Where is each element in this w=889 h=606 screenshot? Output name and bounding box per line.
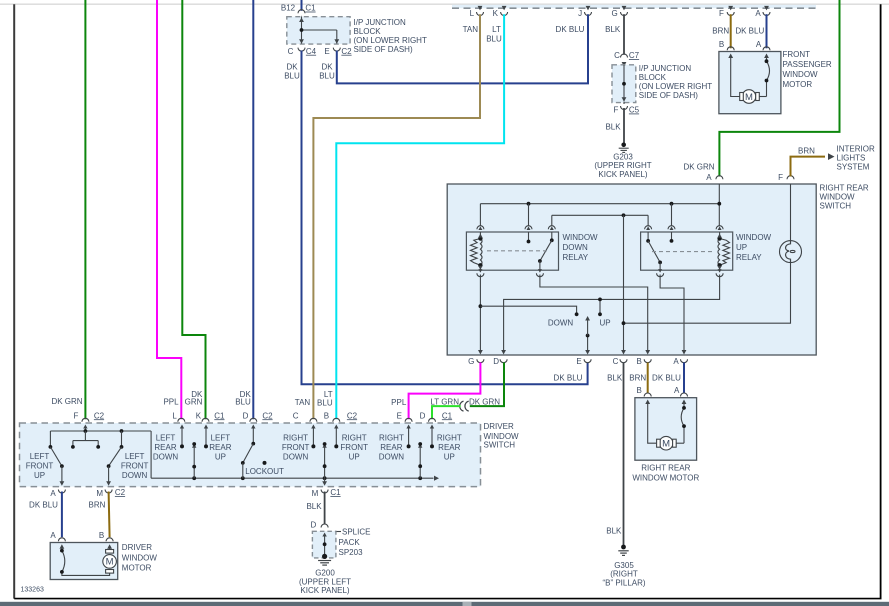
- svg-text:TAN: TAN: [463, 25, 479, 34]
- svg-text:K: K: [196, 411, 202, 420]
- svg-text:BLU: BLU: [486, 35, 502, 44]
- label G305: [614, 561, 634, 570]
- svg-text:D: D: [311, 521, 317, 530]
- wire DK BLU from B12: [301, 0, 303, 11]
- wire PPL G to E driver switch: [409, 363, 481, 420]
- svg-text:WINDOW: WINDOW: [122, 553, 158, 562]
- wire to UP contact: [598, 298, 602, 317]
- label BLK (G wire): [605, 25, 621, 34]
- label TAN (C wire): [295, 398, 311, 407]
- label right front down: [282, 434, 310, 462]
- wire DK BLU C2 to J pin: [337, 14, 588, 83]
- pin B FP motor connector: [727, 47, 734, 58]
- svg-text:A: A: [706, 173, 712, 182]
- svg-text:M: M: [745, 92, 753, 103]
- up relay mid stub: [670, 232, 674, 243]
- left frame border: [13, 4, 15, 598]
- pin D rear switch bottom: [493, 350, 507, 366]
- svg-text:B: B: [324, 411, 329, 420]
- wire BRN to FP motor: [730, 14, 732, 48]
- pin M C2 driver switch: [96, 488, 125, 498]
- right rear window motor label: [632, 463, 699, 482]
- svg-text:RIGHT: RIGHT: [342, 434, 367, 443]
- pin G of top connector: [611, 6, 627, 18]
- pin D splice connector: [321, 524, 328, 528]
- svg-text:M: M: [662, 439, 670, 450]
- wire G riser: [479, 275, 483, 354]
- svg-text:B: B: [99, 531, 104, 540]
- svg-text:BLU: BLU: [235, 397, 251, 406]
- svg-text:BLU: BLU: [317, 399, 333, 408]
- svg-text:UP: UP: [444, 453, 455, 462]
- I/P junction block right text: [639, 64, 712, 100]
- svg-text:C2: C2: [115, 488, 126, 497]
- driver window switch box: [20, 423, 481, 487]
- svg-text:M: M: [106, 557, 114, 568]
- svg-text:MOTOR: MOTOR: [783, 80, 813, 89]
- svg-text:FRONT: FRONT: [783, 50, 811, 59]
- pin J of top connector: [578, 6, 591, 18]
- pin F C5 labels: [614, 106, 640, 115]
- label left rear up: [209, 434, 231, 462]
- svg-text:FRONT: FRONT: [340, 443, 368, 452]
- front passenger window motor label: [783, 50, 832, 89]
- wire DK GRN right feed: [719, 0, 839, 177]
- svg-text:A: A: [756, 40, 762, 49]
- driver switch top pin labels: [74, 411, 453, 420]
- svg-text:FRONT: FRONT: [282, 443, 310, 452]
- svg-text:TAN: TAN: [295, 398, 311, 407]
- svg-text:BLU: BLU: [284, 72, 300, 81]
- svg-text:F: F: [719, 9, 724, 18]
- pin E rear switch bottom: [576, 350, 591, 366]
- svg-text:PPL: PPL: [391, 398, 407, 407]
- svg-text:D: D: [420, 411, 426, 420]
- pin A rear switch connector: [716, 176, 723, 189]
- svg-text:G203: G203: [613, 152, 633, 161]
- svg-text:C: C: [613, 357, 619, 366]
- svg-text:B: B: [637, 386, 642, 395]
- svg-text:LT GRN: LT GRN: [430, 397, 459, 406]
- svg-text:J: J: [578, 9, 582, 18]
- wire BRN B to motor: [647, 363, 649, 394]
- label BRN (M motor wire): [89, 500, 106, 509]
- pin B rear switch bottom: [637, 350, 652, 366]
- label A driver motor: [50, 531, 56, 540]
- svg-text:A: A: [50, 531, 56, 540]
- svg-text:WINDOW: WINDOW: [563, 233, 599, 242]
- up relay coil: [717, 232, 729, 270]
- pin C rear switch bottom: [613, 350, 627, 366]
- svg-text:(ON LOWER RIGHT: (ON LOWER RIGHT: [354, 36, 427, 45]
- switch-top bus dot: [622, 213, 626, 217]
- right frame border: [880, 4, 882, 598]
- svg-text:PACK: PACK: [339, 538, 361, 547]
- pin B RR motor connector: [644, 393, 651, 404]
- svg-text:MOTOR: MOTOR: [122, 564, 152, 573]
- splice internal wire: [322, 533, 326, 557]
- svg-text:BRN: BRN: [712, 27, 729, 36]
- svg-text:KICK PANEL): KICK PANEL): [300, 586, 350, 595]
- label DK GRN (A feed): [683, 163, 714, 172]
- label BLK (M C1 wire): [306, 502, 322, 511]
- right rear window switch box: [447, 184, 816, 355]
- svg-text:DK GRN: DK GRN: [683, 163, 714, 172]
- pin K of top connector: [493, 6, 508, 18]
- svg-text:E: E: [576, 357, 581, 366]
- down relay switch: [538, 232, 554, 270]
- diagram number 133263: [21, 587, 44, 594]
- right rear contacts: [406, 425, 434, 449]
- pin L of top connector: [470, 6, 484, 18]
- svg-text:SIDE OF DASH): SIDE OF DASH): [354, 45, 413, 54]
- svg-text:SYSTEM: SYSTEM: [837, 163, 870, 172]
- svg-text:INTERIOR: INTERIOR: [837, 145, 875, 154]
- left rear contacts: [180, 425, 208, 449]
- label right front up: [340, 434, 368, 462]
- ground G305: [618, 545, 628, 556]
- feed bus dots: [527, 202, 722, 206]
- label BLK above G305: [606, 526, 622, 535]
- svg-text:SIDE OF DASH): SIDE OF DASH): [639, 91, 698, 100]
- wire up relay to A pin: [660, 275, 684, 354]
- svg-text:DOWN: DOWN: [563, 243, 589, 252]
- svg-text:DOWN: DOWN: [122, 471, 148, 480]
- wire C riser: [623, 215, 625, 353]
- label window down relay: [563, 233, 599, 262]
- connector C2/C1 dashed line: [452, 7, 816, 9]
- svg-text:SP203: SP203: [339, 548, 364, 557]
- label right rear down: [379, 434, 405, 462]
- svg-text:RIGHT: RIGHT: [379, 434, 404, 443]
- wire down relay to B pin: [540, 275, 648, 354]
- top toolbar divider line: [0, 3, 889, 5]
- junction dot right block: [622, 82, 626, 86]
- label B pin FP motor: [719, 40, 724, 49]
- pin F C5 connector: [621, 102, 628, 110]
- wire BLK to G203: [623, 108, 625, 145]
- label DK BLU (E wire): [554, 373, 583, 382]
- svg-text:C2: C2: [262, 411, 273, 420]
- inline connector: [460, 401, 469, 411]
- label G203: [613, 152, 633, 161]
- svg-text:BRN: BRN: [89, 500, 106, 509]
- arrow to interior lights system: [828, 153, 835, 160]
- svg-text:C4: C4: [306, 47, 317, 56]
- svg-text:SWITCH: SWITCH: [484, 441, 516, 450]
- svg-text:WINDOW: WINDOW: [783, 70, 819, 79]
- left front up switch: [50, 447, 64, 486]
- pin C C7 labels: [614, 51, 640, 60]
- svg-text:G: G: [611, 9, 617, 18]
- label LT BLU (top): [486, 25, 502, 43]
- label LT BLU (B wire): [317, 390, 333, 408]
- svg-text:B: B: [719, 40, 724, 49]
- lockout bus: [151, 476, 439, 481]
- svg-text:C: C: [293, 411, 299, 420]
- right rear window motor box: [635, 398, 697, 461]
- svg-text:DK BLU: DK BLU: [556, 25, 585, 34]
- svg-text:KICK PANEL): KICK PANEL): [598, 170, 648, 179]
- svg-text:I/P JUNCTION: I/P JUNCTION: [639, 64, 692, 73]
- lamp feed wire: [790, 184, 792, 241]
- wire A feed into switch: [718, 184, 720, 204]
- svg-text:LT: LT: [492, 25, 501, 34]
- RR motor internal A wire: [676, 402, 684, 443]
- svg-text:A: A: [755, 9, 761, 18]
- right rear pole: [418, 442, 422, 478]
- label G305 location: [602, 570, 645, 588]
- svg-text:K: K: [493, 9, 499, 18]
- svg-text:PPL: PPL: [163, 397, 179, 406]
- wire TAN from L pin to C of driver switch: [313, 14, 480, 419]
- label BRN (B wire): [629, 373, 646, 382]
- label BLK (C wire): [607, 373, 623, 382]
- pin B12 connector symbol: [298, 10, 305, 20]
- wire DK BLU to D driver switch: [252, 0, 254, 419]
- wire BLK M C1 to splice: [324, 492, 326, 525]
- svg-text:DK BLU: DK BLU: [652, 373, 681, 382]
- I/P junction block text: [354, 18, 427, 54]
- pin A rear switch bottom: [673, 350, 687, 366]
- FP motor internal A wire: [760, 56, 770, 97]
- wire BRN to interior lights: [791, 157, 826, 177]
- pin F of top connector: [719, 6, 734, 18]
- label right rear window switch: [820, 184, 869, 211]
- svg-text:SWITCH: SWITCH: [820, 202, 852, 211]
- svg-text:D: D: [493, 357, 499, 366]
- svg-text:BLOCK: BLOCK: [354, 27, 382, 36]
- label DK BLU (C4 wire): [284, 63, 300, 81]
- svg-text:C7: C7: [629, 51, 640, 60]
- svg-text:M: M: [312, 489, 319, 498]
- svg-text:LOCKOUT: LOCKOUT: [245, 467, 284, 476]
- RR motor contact dots: [682, 406, 686, 428]
- down relay bottom pin connectors: [477, 269, 544, 277]
- label TAN (top): [463, 25, 479, 34]
- wire DK BLU A to motor: [683, 363, 685, 394]
- svg-text:“B” PILLAR): “B” PILLAR): [602, 579, 645, 588]
- label lockout: [245, 467, 284, 476]
- label PPL (E wire): [391, 398, 407, 407]
- ground G203: [619, 143, 629, 153]
- svg-text:BLK: BLK: [606, 526, 622, 535]
- wire BLK from G pin: [623, 14, 625, 55]
- switch-top bus: [552, 215, 648, 225]
- svg-text:(UPPER LEFT: (UPPER LEFT: [299, 578, 351, 587]
- svg-text:DK GRN: DK GRN: [469, 397, 500, 406]
- pin A of top connector: [755, 6, 770, 18]
- svg-text:L: L: [172, 411, 177, 420]
- bottom frame border: [14, 598, 881, 600]
- bus drop right: [150, 431, 152, 478]
- svg-text:BLK: BLK: [607, 373, 623, 382]
- svg-text:(ON LOWER RIGHT: (ON LOWER RIGHT: [639, 82, 712, 91]
- bottom scrollbar track: [0, 602, 889, 606]
- label driver window switch: [484, 422, 520, 450]
- svg-text:RIGHT REAR: RIGHT REAR: [820, 184, 869, 193]
- label interior lights system: [837, 145, 875, 172]
- front passenger window motor box: [719, 52, 781, 114]
- svg-text:BRN: BRN: [629, 373, 646, 382]
- svg-text:WINDOW: WINDOW: [820, 193, 856, 202]
- svg-text:C1: C1: [305, 4, 316, 13]
- right front pole: [322, 442, 326, 478]
- svg-text:C2: C2: [347, 411, 358, 420]
- up relay link dashed: [652, 251, 713, 253]
- wire PPL to L driver switch: [157, 0, 181, 419]
- junction block internal wire: [299, 17, 339, 44]
- svg-text:BLK: BLK: [605, 123, 621, 132]
- label G203 location: [594, 161, 651, 179]
- svg-text:LEFT: LEFT: [156, 434, 176, 443]
- left rear pole: [192, 442, 196, 478]
- pin M C1 driver switch: [312, 488, 342, 498]
- junction block right internal wire: [622, 65, 627, 102]
- label DK BLU (top right): [735, 27, 764, 36]
- svg-text:REAR: REAR: [380, 443, 402, 452]
- label UP: [599, 319, 610, 328]
- feed bus top: [50, 429, 151, 433]
- svg-text:LEFT: LEFT: [30, 452, 50, 461]
- svg-text:BLOCK: BLOCK: [639, 73, 667, 82]
- svg-text:WINDOW: WINDOW: [484, 432, 520, 441]
- svg-text:RIGHT REAR: RIGHT REAR: [641, 463, 690, 472]
- label G200: [315, 569, 335, 578]
- lockout switch: [241, 425, 267, 479]
- driver motor M symbol: [103, 550, 117, 574]
- svg-text:DK BLU: DK BLU: [735, 27, 764, 36]
- svg-text:B12: B12: [281, 4, 296, 13]
- svg-text:(RIGHT: (RIGHT: [610, 570, 638, 579]
- svg-text:RIGHT: RIGHT: [283, 434, 308, 443]
- svg-text:BLK: BLK: [605, 25, 621, 34]
- svg-text:A: A: [673, 357, 679, 366]
- svg-text:PASSENGER: PASSENGER: [783, 60, 832, 69]
- svg-text:C2: C2: [341, 47, 352, 56]
- RR motor internal B wire: [648, 402, 657, 443]
- label DK GRN (K wire): [185, 390, 203, 406]
- svg-text:UP: UP: [599, 319, 610, 328]
- window up relay box: [641, 232, 733, 270]
- pin B driver motor connector: [106, 538, 113, 549]
- label left front up: [26, 452, 54, 480]
- down relay coil: [471, 232, 483, 270]
- wire DK BLU C4 to E of right rear switch: [302, 51, 588, 385]
- svg-text:UP: UP: [215, 453, 226, 462]
- svg-text:L: L: [470, 9, 475, 18]
- svg-text:B: B: [637, 357, 642, 366]
- svg-text:DOWN: DOWN: [379, 453, 405, 462]
- svg-text:DRIVER: DRIVER: [484, 422, 514, 431]
- svg-text:RIGHT: RIGHT: [437, 434, 462, 443]
- svg-text:C1: C1: [330, 488, 341, 497]
- svg-text:E: E: [324, 47, 329, 56]
- svg-text:UP: UP: [736, 243, 747, 252]
- svg-text:REAR: REAR: [438, 443, 460, 452]
- up relay top pin connectors: [645, 226, 724, 230]
- svg-text:M: M: [96, 489, 103, 498]
- label F pin rear switch: [778, 173, 783, 182]
- svg-text:G: G: [468, 357, 474, 366]
- svg-text:F: F: [778, 173, 783, 182]
- label A pin FP motor: [756, 40, 762, 49]
- label LT GRN (D wire): [430, 397, 459, 406]
- svg-text:GRN: GRN: [185, 397, 203, 406]
- wire up relay coil to D pin: [504, 275, 720, 354]
- junction dot: [300, 28, 304, 32]
- svg-text:C: C: [614, 51, 620, 60]
- M C1 drop: [322, 478, 327, 486]
- pin C C7 connector: [621, 54, 628, 67]
- connector strip fill: [452, 5, 816, 8]
- svg-text:BLK: BLK: [306, 502, 322, 511]
- svg-text:UP: UP: [34, 471, 45, 480]
- svg-text:LT: LT: [324, 390, 333, 399]
- up relay bottom pin connectors: [657, 269, 724, 277]
- pin A driver motor connector: [58, 538, 65, 549]
- FP motor contact dots: [765, 59, 769, 82]
- svg-text:DK BLU: DK BLU: [29, 500, 58, 509]
- label DK BLU (A wire): [652, 373, 681, 382]
- down relay link dashed: [487, 250, 549, 252]
- svg-text:D: D: [243, 411, 249, 420]
- mid pin risers: [529, 204, 672, 226]
- label left front down: [121, 452, 149, 480]
- up relay switch: [646, 232, 662, 270]
- svg-text:RELAY: RELAY: [736, 253, 762, 262]
- svg-text:C1: C1: [442, 411, 453, 420]
- wire LT GRN to D driver switch: [432, 406, 461, 419]
- wire DK BLU A to driver motor: [61, 492, 63, 538]
- label A pin rear switch: [706, 173, 712, 182]
- svg-text:F: F: [614, 106, 619, 115]
- label BLK below C5: [605, 123, 621, 132]
- label A pin RR motor: [674, 386, 680, 395]
- splice ground: [318, 554, 331, 565]
- svg-text:(UPPER RIGHT: (UPPER RIGHT: [594, 161, 651, 170]
- label D splice: [311, 521, 317, 530]
- svg-text:E: E: [397, 411, 402, 420]
- wire DK GRN to K driver switch: [182, 0, 205, 419]
- driver motor internal A wire: [62, 547, 110, 575]
- svg-text:LIGHTS: LIGHTS: [837, 154, 866, 163]
- label B pin RR motor: [637, 386, 642, 395]
- svg-text:I/P JUNCTION: I/P JUNCTION: [354, 18, 407, 27]
- label PPL (L wire): [163, 397, 179, 406]
- I/P junction block (right): [612, 65, 636, 103]
- indicator lamp: [780, 241, 802, 263]
- svg-text:FRONT: FRONT: [26, 462, 54, 471]
- down relay mid stub: [527, 232, 531, 243]
- pin G rear switch bottom: [468, 350, 484, 366]
- svg-text:G200: G200: [315, 569, 335, 578]
- FP motor internal B wire: [731, 56, 740, 97]
- svg-text:C5: C5: [629, 106, 640, 115]
- svg-text:REAR: REAR: [209, 443, 231, 452]
- svg-text:C1: C1: [214, 411, 225, 420]
- label DOWN: [548, 318, 574, 327]
- svg-text:SPLICE: SPLICE: [342, 527, 370, 536]
- label BRN interior: [798, 146, 815, 155]
- svg-text:DK GRN: DK GRN: [51, 397, 82, 406]
- label DK BLU (A motor wire): [29, 500, 58, 509]
- svg-text:BRN: BRN: [798, 146, 815, 155]
- driver motor internal B wire: [109, 547, 111, 551]
- left front down switch: [106, 431, 123, 486]
- pin A RR motor connector: [681, 393, 688, 404]
- wire to DOWN contact: [480, 306, 578, 316]
